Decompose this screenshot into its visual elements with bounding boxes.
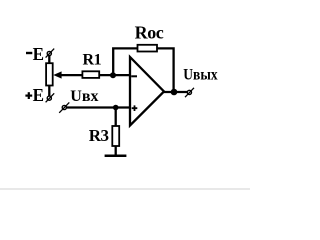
node A (inverting input junction) [110,72,116,78]
wire op-amp output to Uвых terminal [164,91,187,93]
wire from -E terminal to potentiometer [48,56,50,64]
svg-text:E: E [33,44,44,64]
wire Uвх terminal to non-inverting input [66,106,130,108]
op-amp U1 [130,57,164,126]
label +E [25,85,44,105]
svg-text:Uвых: Uвых [183,66,217,83]
svg-text:E: E [33,85,44,105]
wiper arrow [53,71,61,78]
svg-text:R3: R3 [89,126,109,145]
label -E [26,44,44,64]
terminal -E [46,49,55,58]
svg-text:Uвх: Uвх [70,88,98,105]
svg-text:R1: R1 [83,51,102,68]
node B (non-inverting junction) [113,105,119,111]
svg-text:Rос: Rос [135,23,164,43]
potentiometer body [46,63,53,85]
wire node B down to R3 [115,108,117,127]
node C (output junction) [171,89,178,96]
resistor R3 [112,126,119,146]
minus sign (inverting input) [131,75,137,77]
resistor R1 [82,71,99,78]
terminal Uвых [185,88,194,97]
resistor Roc [138,45,158,52]
terminal +E [46,93,55,102]
plus sign (non-inverting input) [132,105,138,111]
wire Roc to output node [157,48,174,92]
ground [105,155,127,158]
wire wiper to R1 [61,74,83,76]
wire riser node A up to Roc [113,48,137,75]
terminal Uвх [59,102,69,112]
wire R3 to ground [115,146,117,156]
faint separator line [0,188,250,189]
wire R1 to inverting input [99,74,130,76]
wire from potentiometer to +E terminal [48,86,50,97]
